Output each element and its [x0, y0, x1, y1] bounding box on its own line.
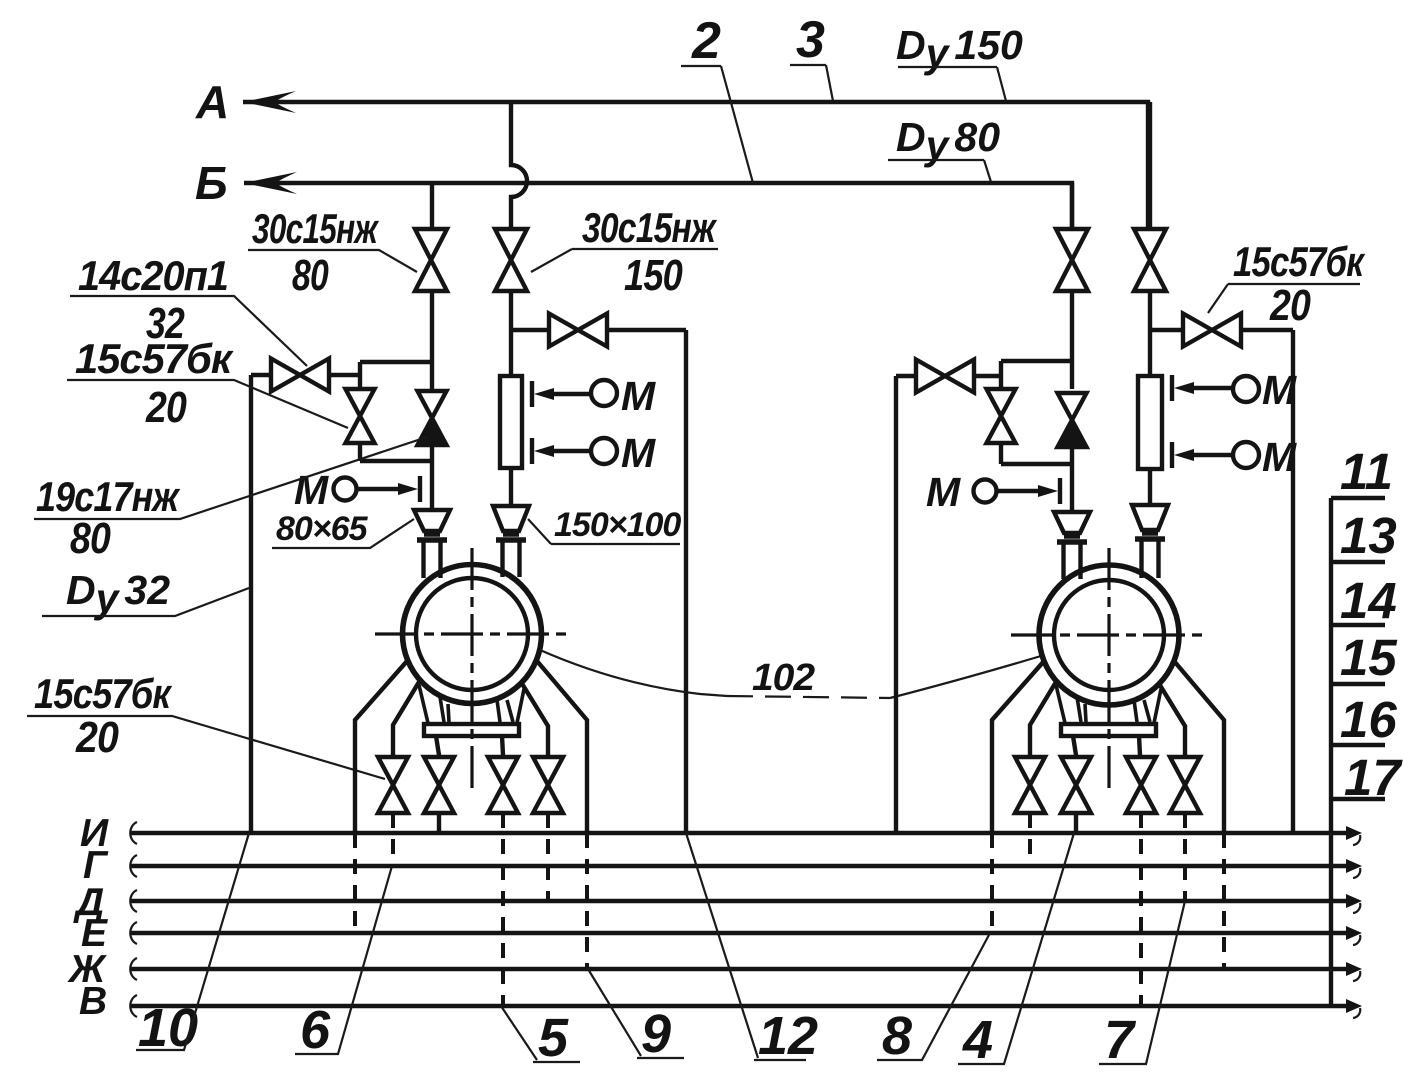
column rule 1 [1331, 496, 1385, 500]
reducer pump2 left [1054, 512, 1090, 533]
gauge M6 bar [1170, 442, 1174, 468]
leader from Dy80 to wire B [984, 160, 991, 182]
wire below V1 to cluster [430, 291, 434, 389]
nozzle pipe into pump P1 left [424, 542, 441, 578]
svg-text:17: 17 [1344, 749, 1403, 806]
check valve V6 19c17nж [418, 391, 447, 445]
wire: P2 drain to valve D6 [1073, 736, 1076, 757]
label 30c15nж/80 [248, 205, 417, 300]
label 19c17nж/80 [34, 437, 427, 563]
column rule 6 [1331, 797, 1385, 801]
svg-text:3: 3 [796, 11, 825, 69]
wire: P2 drain to valve D5 [1030, 682, 1056, 757]
arrow A (left) [243, 91, 296, 113]
svg-text:7: 7 [1104, 1010, 1137, 1070]
gauge M4 stem [997, 489, 1042, 493]
wire below V8 [1148, 291, 1152, 376]
wire: P1 drain to valve D4 [521, 682, 548, 757]
column rule 5 [1331, 743, 1385, 747]
reducer 150x100 [493, 506, 529, 531]
svg-text:15с57бк: 15с57бк [34, 670, 172, 717]
svg-text:В: В [79, 980, 107, 1023]
wire: P2 drain left envelope [992, 660, 1045, 833]
valve D5 [1015, 757, 1045, 813]
valve V4 14c20п1 [271, 359, 329, 392]
svg-text:14: 14 [1340, 572, 1397, 629]
reducer 80x65 [414, 510, 450, 531]
gauge M3 arrow [534, 445, 554, 457]
flange bars under reducer 80x65 [417, 534, 447, 540]
bus Ж line [130, 958, 1362, 981]
wire: P2 drain to valve D7 [1139, 736, 1140, 757]
gauge M2 bar [530, 381, 534, 407]
underline of label Dy80 [888, 159, 984, 161]
nozzle pipe into pump P2 right [1142, 541, 1159, 578]
svg-text:14с20п1: 14с20п1 [78, 252, 228, 299]
svg-text:16: 16 [1340, 691, 1397, 748]
svg-text:19с17нж: 19с17нж [36, 473, 181, 520]
valve V1 30c15nж-80 [415, 229, 447, 291]
gauge M5 arrow [1174, 382, 1194, 394]
gauge M3 circle [591, 438, 617, 464]
svg-text:12: 12 [758, 1006, 818, 1066]
valve V10 14c20п1 [916, 360, 974, 393]
valve D4 [533, 757, 563, 813]
label 9 [588, 969, 684, 1064]
gauge M1 circle [334, 478, 357, 501]
wire: P1 drain right envelope [537, 661, 587, 833]
wire: pump2 small bypass stems [999, 376, 1003, 464]
wire below check valve V12 [1070, 447, 1074, 512]
gauge M2 stem [550, 392, 592, 396]
wire: small bypass stem [358, 375, 362, 461]
wire below orifice to reducer [509, 468, 513, 506]
label 8 [877, 933, 990, 1066]
valve V7 [1056, 229, 1088, 291]
wire below check valve to reducer [430, 445, 434, 510]
wire: P1 drain to valve D1 [393, 682, 419, 757]
svg-text:150: 150 [624, 251, 683, 300]
svg-text:30с15нж: 30с15нж [582, 204, 717, 251]
svg-text:М: М [926, 469, 961, 515]
valve V3 bypass [549, 314, 607, 347]
pump P2 outer casing [1039, 565, 1179, 705]
check valve V12 19c17nж [1058, 393, 1087, 447]
svg-text:20: 20 [1269, 281, 1311, 330]
wire A: header Dy150 [243, 102, 1148, 229]
orifice assembly FE1 [500, 376, 522, 468]
gauge M6 stem [1190, 453, 1233, 457]
wire: Dy32 line down to bus I [249, 375, 253, 833]
svg-text:15с57бк: 15с57бк [1233, 238, 1365, 285]
pump P1 horizontal centerline [375, 632, 569, 635]
gauge M2 circle [591, 380, 617, 406]
svg-text:80×65: 80×65 [276, 510, 369, 548]
label 15c57бк/20 lower-left [27, 670, 385, 779]
wire: pump2 bypass drop to bus И [1291, 330, 1295, 833]
wire: P2 drain to valve D8 [1158, 682, 1185, 757]
label 4 [958, 833, 1074, 1070]
svg-text:11: 11 [1340, 443, 1393, 500]
svg-text:Б: Б [195, 157, 228, 209]
label 12 [686, 833, 818, 1066]
valve D6 [1061, 757, 1091, 813]
pump P2 pedestal [1056, 685, 1161, 723]
gauge M5 bar [1170, 375, 1174, 401]
wire: D1 dashed to bus Г [391, 813, 395, 866]
bus Е line [130, 922, 1362, 945]
valve D2 [424, 757, 454, 813]
valve V8 [1134, 229, 1166, 291]
label 10 [136, 833, 249, 1058]
wire: pump2 bypass [1150, 328, 1293, 332]
wire: P1 drain right envelope dashed to bus Ж [585, 833, 589, 969]
pump P1 base bar [424, 724, 519, 736]
gauge M6 arrow [1174, 449, 1194, 461]
valve D1 [378, 757, 408, 813]
wire: D4 dashed to bus Д [546, 813, 550, 901]
svg-text:20: 20 [145, 383, 187, 432]
svg-text:150×100: 150×100 [554, 506, 681, 544]
leader 102 dashed middle [727, 696, 890, 698]
arrow B (left) [244, 172, 297, 194]
orifice assembly FE2 [1138, 376, 1162, 469]
wire: pump2 discharge riser from A [1148, 102, 1152, 229]
wire: pump1 bypass drop to bus I [684, 330, 688, 833]
valve V2 30c15nж-150 [495, 229, 527, 291]
gauge M3 bar [530, 438, 534, 464]
gauge M4 bar [1058, 478, 1062, 504]
leader 102 between pumps [540, 650, 1041, 698]
bus В line [130, 995, 1362, 1018]
svg-text:15с57бк: 15с57бк [75, 335, 234, 382]
wire: D7 dashed to bus B [1139, 813, 1143, 1006]
wire: pump2 cluster bottom [1001, 462, 1072, 466]
svg-text:2: 2 [691, 12, 721, 70]
wire below V7 [1070, 291, 1074, 389]
underline of label 3 [790, 64, 826, 66]
svg-text:13: 13 [1340, 507, 1397, 564]
leader from Dy150 to wire A [997, 67, 1006, 101]
bus И line [130, 822, 1362, 845]
leader from 3 to wire A [826, 65, 833, 101]
wire: P1 drain left envelope dashed to bus E [353, 833, 357, 933]
wire: pump2 cluster top [896, 361, 1072, 376]
valve V5 15c57бк [346, 389, 375, 443]
valve V9 bypass [1183, 314, 1241, 347]
wire: cluster bottom connection [360, 459, 432, 463]
underline of label 2 [681, 65, 721, 67]
label 30c15nж/150 [531, 204, 718, 300]
wire below orifice FE2 [1148, 469, 1152, 505]
svg-text:М: М [1262, 367, 1297, 413]
gauge M5 circle [1233, 376, 1259, 402]
label 6 [295, 866, 392, 1060]
label 7 [1099, 901, 1185, 1070]
gauge M3 stem [550, 449, 592, 453]
flange bars under reducer 150x100 [496, 534, 526, 540]
svg-text:9: 9 [641, 1004, 671, 1064]
svg-text:М: М [621, 430, 656, 476]
nozzle pipe into pump P2 left [1064, 544, 1081, 579]
wire: D8 dashed to bus Д [1183, 813, 1187, 901]
bus Д line [130, 890, 1362, 913]
pump P1 outer casing [403, 565, 542, 704]
wire: P2 left envelope dashed to bus E [990, 833, 994, 933]
svg-text:5: 5 [538, 1008, 569, 1068]
pump P2 horizontal centerline [1011, 633, 1207, 636]
wire: pump2 suction riser from B [1070, 183, 1074, 229]
svg-text:8: 8 [882, 1006, 912, 1066]
svg-text:102: 102 [752, 657, 815, 699]
wire: P1 drain to valve D3 [502, 736, 503, 757]
svg-text:А: А [195, 76, 229, 128]
pump P1 vertical centerline [470, 548, 473, 788]
wire: pump1 suction riser from B [430, 183, 434, 229]
svg-text:15: 15 [1340, 629, 1397, 686]
label 14c20п1/32 [70, 252, 307, 366]
svg-text:30с15нж: 30с15нж [252, 205, 379, 252]
reducer pump2 right [1132, 505, 1168, 530]
label 150x100 [528, 506, 681, 544]
underline of label Dy150 [898, 66, 997, 68]
wire: D2 to bus И [437, 813, 441, 833]
wire: D3 dashed to bus B [501, 813, 505, 1006]
gauge M5 stem [1190, 386, 1233, 390]
column rule 3 [1331, 623, 1385, 627]
gauge M6 circle [1233, 442, 1259, 468]
pump P2 base bar [1061, 724, 1156, 736]
flange bars pump2 left [1057, 536, 1087, 542]
wire: pump1 bypass to right [511, 328, 686, 332]
svg-text:М: М [1262, 434, 1297, 480]
label 80x65 [272, 510, 414, 548]
column rule 2 [1331, 560, 1385, 564]
label Dy32 [42, 567, 249, 621]
gauge M1 connection bar [418, 476, 422, 502]
gauge M4 arrow [1038, 485, 1058, 497]
wire: P1 drain to valve D2 [436, 736, 439, 757]
valve D7 [1126, 757, 1156, 813]
wire: pump2 left line to bus И [894, 376, 898, 833]
gauge M1 stem [357, 487, 402, 491]
svg-text:80: 80 [70, 514, 111, 563]
wire below V2 to orifice [509, 291, 513, 376]
valve D8 [1170, 757, 1200, 813]
svg-text:20: 20 [75, 713, 119, 762]
wire B: header Dy80 [244, 183, 1072, 229]
svg-text:4: 4 [962, 1010, 993, 1070]
svg-text:Dу32: Dу32 [66, 567, 170, 621]
pump P1 pedestal [419, 685, 524, 723]
label 5 [501, 1006, 580, 1068]
wire: cluster top connection [251, 362, 432, 375]
wire: P2 right envelope dashed to bus Ж [1222, 833, 1226, 969]
flange bars pump2 right [1135, 533, 1165, 539]
wire: P1 drain left envelope [355, 660, 408, 833]
pump P2 inner circle [1054, 580, 1164, 690]
svg-text:М: М [294, 467, 329, 513]
gauge M4 circle [974, 480, 997, 503]
wire: D6 to bus И [1074, 813, 1078, 833]
leader from 2 to wire B [721, 66, 753, 183]
gauge M2 arrow [534, 388, 554, 400]
label 15c57бк/20 right [1208, 238, 1365, 330]
pump P1 inner circle [416, 578, 528, 690]
wire: D5 dashed to bus Г [1028, 813, 1032, 866]
nozzle pipe into pump P1 right [503, 542, 520, 577]
svg-text:М: М [621, 373, 656, 419]
gauge M1 arrow [398, 483, 418, 495]
wire: pump1 discharge riser from A with hop over B [511, 102, 527, 229]
valve V11 15c57бк [987, 389, 1016, 443]
right column vertical [1329, 498, 1333, 1006]
svg-text:6: 6 [300, 1000, 331, 1060]
column rule 4 [1331, 682, 1385, 686]
wire: P2 drain right envelope [1174, 661, 1224, 833]
pump P2 vertical centerline [1107, 548, 1110, 788]
bus Г line [130, 855, 1362, 878]
svg-text:80: 80 [292, 251, 329, 300]
valve D3 [488, 757, 518, 813]
label 15c57бк/20 upper-left [67, 335, 348, 432]
